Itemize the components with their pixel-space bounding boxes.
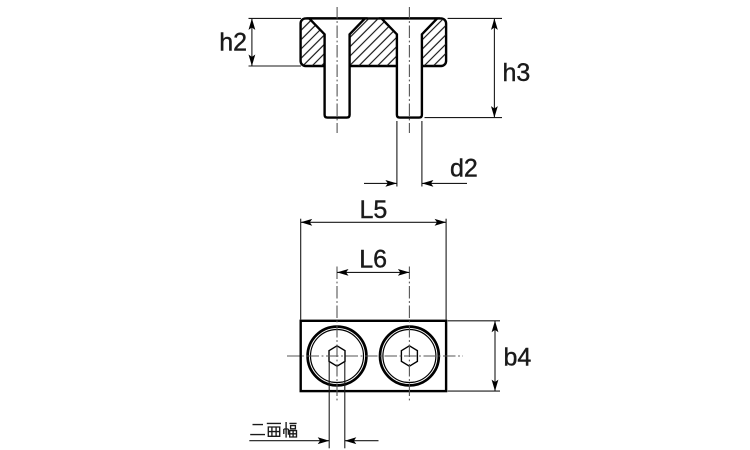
dimension h3 line <box>493 18 495 117</box>
dimension b4 line <box>494 321 496 391</box>
dimension d2 line right <box>422 182 467 184</box>
vertical centerline right <box>408 267 410 403</box>
screw head H2 outer circle <box>380 327 439 386</box>
hex socket of H1 <box>329 346 345 366</box>
svg-text:d2: d2 <box>450 155 478 183</box>
dimension d2 line left <box>364 182 397 184</box>
svg-text:L6: L6 <box>359 246 387 274</box>
svg-text:L5: L5 <box>359 196 387 224</box>
width-across-flats dimension line right <box>345 440 379 442</box>
vertical centerline left <box>336 267 338 403</box>
screw S2 (right flat-head stud, unsectioned) <box>382 18 438 117</box>
body block B1 (sectioned plate) <box>301 18 447 66</box>
horizontal centerline <box>287 355 463 357</box>
dimension h2 line <box>251 18 253 66</box>
screw head H1 outer circle <box>308 327 367 386</box>
dimension h3 extension lines <box>448 17 502 19</box>
hatching of sectioned block <box>301 18 447 66</box>
screw head H1 inner circle <box>311 330 364 383</box>
width-across-flats dimension line left <box>249 440 329 442</box>
label 二面幅 (width across flats), drawn as strokes <box>250 422 296 438</box>
dimension d2 extension lines <box>396 121 398 187</box>
screw S1 (left flat-head stud, unsectioned) <box>309 18 365 117</box>
dimension h2 extension lines <box>249 17 302 19</box>
dimension b4 extension lines <box>448 320 500 322</box>
dimension L5 extension lines <box>300 219 302 320</box>
dimension L6 line <box>337 271 409 273</box>
centerline left screw <box>336 7 338 133</box>
svg-text:h2: h2 <box>219 28 247 56</box>
svg-text:b4: b4 <box>504 344 532 372</box>
body outline B2 (plan view plate) <box>301 321 446 391</box>
screw head H2 inner circle <box>383 330 436 383</box>
width-across-flats extension lines <box>328 362 330 449</box>
svg-text:h3: h3 <box>503 59 531 87</box>
dimension L5 line <box>301 221 446 223</box>
centerline right screw <box>408 7 410 133</box>
hex socket of H2 <box>401 346 417 366</box>
